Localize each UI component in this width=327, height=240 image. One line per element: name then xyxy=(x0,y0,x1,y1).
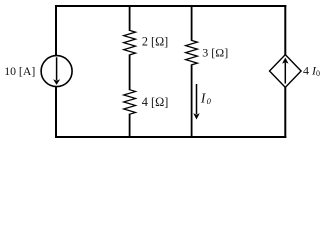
wire branch2 middle xyxy=(129,54,131,90)
svg-text:2 [Ω]: 2 [Ω] xyxy=(142,35,168,49)
resistor R3 3ohm xyxy=(186,40,198,65)
wire branch3 top lead xyxy=(191,5,193,41)
svg-text:4 I0: 4 I0 xyxy=(303,63,320,78)
wire top xyxy=(55,5,286,7)
wire right lower xyxy=(284,87,286,139)
wire right upper xyxy=(284,5,286,56)
wire branch3 bottom lead xyxy=(191,64,193,138)
svg-text:10 [A]: 10 [A] xyxy=(4,64,35,78)
wire left lower xyxy=(55,87,57,139)
resistor R1 2ohm xyxy=(124,30,136,55)
svg-text:I0: I0 xyxy=(200,91,212,107)
wire branch2 top lead xyxy=(129,5,131,31)
svg-text:4 [Ω]: 4 [Ω] xyxy=(142,95,169,109)
resistor R2 4ohm xyxy=(124,90,136,115)
svg-text:3 [Ω]: 3 [Ω] xyxy=(202,45,228,59)
current arrow I0 xyxy=(193,84,199,120)
dependent current source 4I0 xyxy=(270,55,302,88)
current source I1 10A xyxy=(41,56,72,87)
wire left upper xyxy=(55,5,57,57)
wire branch2 bottom lead xyxy=(129,114,131,138)
wire bottom xyxy=(55,136,286,138)
